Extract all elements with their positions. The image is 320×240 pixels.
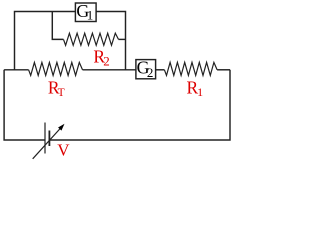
svg-text:2: 2 — [147, 65, 154, 80]
svg-text:V: V — [57, 141, 70, 160]
svg-text:1: 1 — [87, 8, 94, 23]
svg-text:1: 1 — [197, 85, 203, 99]
svg-text:2: 2 — [103, 53, 110, 68]
svg-text:T: T — [58, 87, 65, 99]
